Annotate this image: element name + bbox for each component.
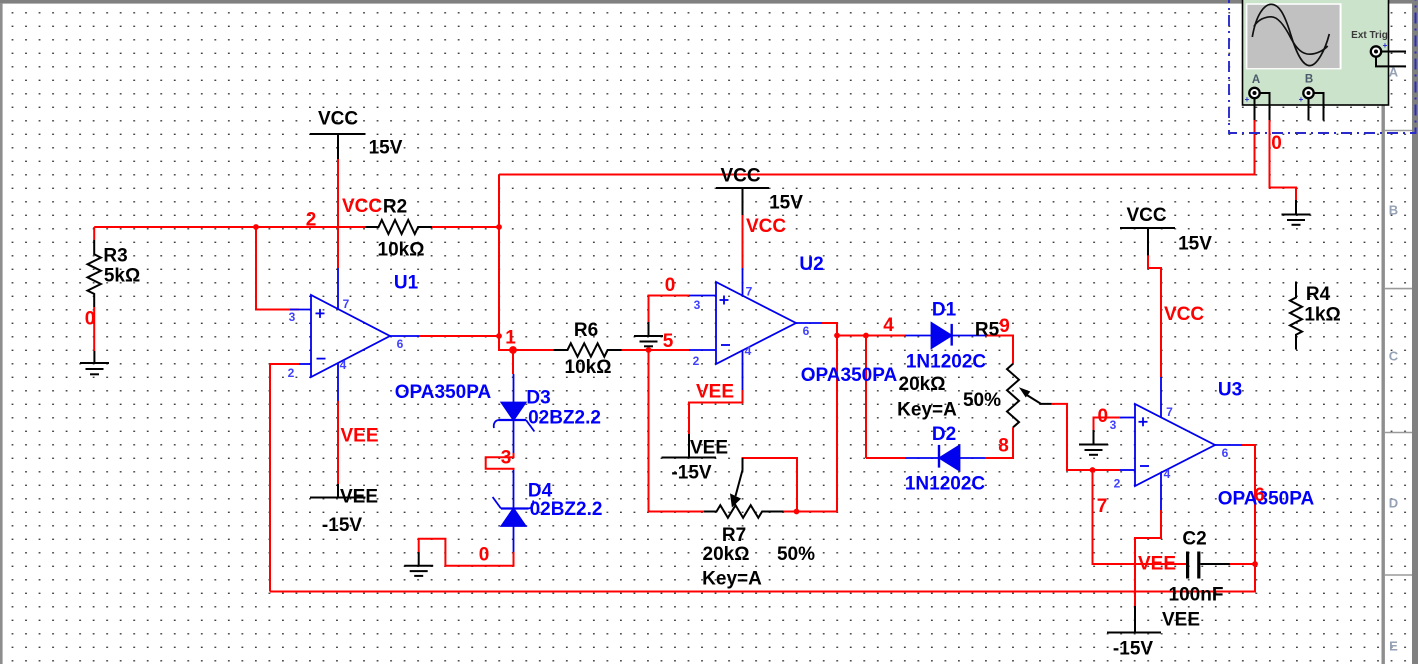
svg-text:10kΩ: 10kΩ (378, 240, 425, 261)
wire R7 wiper loop (743, 458, 798, 512)
svg-text:VEE: VEE (690, 438, 728, 459)
svg-text:7: 7 (1166, 405, 1173, 419)
svg-text:R6: R6 (574, 320, 598, 341)
wire R3 bottom to ground (93, 307, 95, 351)
wire bottom long net6 (270, 564, 1255, 592)
sheet border left strip (0, 4, 3, 664)
label R7 percent (777, 544, 815, 565)
wire node1 vertical x499 (499, 175, 554, 351)
selection box dashed (1229, 0, 1416, 133)
label -15V U3 (1113, 639, 1153, 660)
svg-text:VCC: VCC (1126, 205, 1166, 226)
VCC bar U3 (1120, 228, 1175, 255)
wire VCC U3 stem (1148, 255, 1161, 377)
label net 4 (883, 315, 894, 336)
label R5 key (897, 400, 957, 421)
label D2 part (905, 474, 986, 495)
junction dot C2 out (1252, 561, 1258, 567)
oscilloscope label Ext Trig (1351, 30, 1388, 41)
svg-text:50%: 50% (777, 544, 815, 565)
svg-text:0: 0 (85, 309, 96, 330)
svg-text:100nF: 100nF (1169, 585, 1224, 606)
label U2 part (801, 365, 898, 386)
svg-text:1N1202C: 1N1202C (905, 474, 986, 495)
svg-text:VCC: VCC (1164, 304, 1204, 325)
potentiometer R7 body (704, 505, 784, 518)
label VCC U1 (318, 109, 358, 130)
label R5 (975, 320, 1000, 341)
label net 9 (999, 316, 1010, 337)
svg-text:C2: C2 (1182, 529, 1206, 550)
label R4 (1306, 284, 1331, 305)
resistor R4 (1290, 282, 1302, 350)
pin labels U2 (693, 285, 810, 369)
VCC bar U2 (716, 188, 769, 215)
svg-text:5: 5 (663, 331, 674, 352)
capacitor C2 (1188, 552, 1230, 579)
svg-text:15V: 15V (769, 193, 803, 214)
wire top long node1 to scope A (499, 120, 1255, 175)
svg-text:VCC: VCC (342, 196, 382, 217)
svg-text:VEE: VEE (696, 382, 734, 403)
label net 5 (663, 331, 674, 352)
wire D1 right to R5 top (986, 336, 1013, 364)
op-amp U3 (1120, 377, 1242, 510)
ground net0 U2 (634, 322, 663, 346)
label VCC red U1 (342, 196, 382, 217)
wire VCC U1 stem (337, 159, 339, 268)
oscilloscope Ext Trig stubs (1376, 52, 1406, 67)
ground scope net0 (1282, 200, 1311, 225)
label R6 (574, 320, 598, 341)
svg-text:20kΩ: 20kΩ (899, 374, 946, 395)
svg-text:U1: U1 (394, 273, 419, 294)
svg-text:2: 2 (1114, 477, 1121, 491)
svg-text:0: 0 (665, 275, 676, 296)
label U1 (394, 273, 419, 294)
label 15V U3 (1178, 234, 1212, 255)
svg-text:-15V: -15V (671, 463, 711, 484)
svg-text:10kΩ: 10kΩ (565, 357, 612, 378)
label U3 (1218, 380, 1242, 401)
svg-text:6: 6 (1222, 446, 1229, 460)
svg-text:VEE: VEE (340, 487, 378, 508)
junction dot net5 ground (646, 347, 652, 353)
zener diode D3 (494, 374, 535, 453)
label R5 percent (963, 390, 1001, 411)
svg-text:7: 7 (746, 285, 753, 299)
wire D3 top stub (512, 350, 514, 374)
junction dot net2-x499 (496, 224, 502, 230)
label net 2 (306, 210, 317, 231)
label VEE red U3 (1138, 554, 1176, 575)
label net 0 U2 (665, 275, 676, 296)
label net 3 (501, 448, 512, 469)
wire U1 output to node1 (419, 335, 499, 337)
label net 0 R3 (85, 309, 96, 330)
label U2 (799, 254, 823, 275)
svg-text:4: 4 (883, 315, 894, 336)
svg-text:2: 2 (288, 366, 295, 380)
svg-text:6: 6 (803, 324, 810, 338)
ground R3 (80, 351, 109, 374)
wire net2 down to U1 pin3 (256, 227, 299, 310)
svg-text:2: 2 (306, 210, 317, 231)
label U1 part (395, 382, 492, 403)
VEE bar U1 (310, 484, 366, 498)
label VCC red U2 (746, 216, 786, 237)
wire net0 U3 plus to ground (1094, 418, 1121, 431)
svg-text:Key=A: Key=A (702, 569, 762, 590)
label VEE red U2 (696, 382, 734, 403)
svg-text:Ext Trig: Ext Trig (1351, 30, 1388, 41)
label R7 value (703, 544, 750, 565)
wire VCC U2 stem (742, 215, 744, 268)
label D2 (932, 424, 956, 445)
svg-text:0: 0 (1098, 406, 1109, 427)
svg-text:20kΩ: 20kΩ (703, 544, 750, 565)
label R2 (383, 197, 407, 218)
VEE bar U3 (1107, 606, 1161, 633)
svg-text:6: 6 (1254, 485, 1265, 506)
label R4 value (1304, 305, 1340, 326)
label VEE U2 (690, 438, 728, 459)
svg-text:6: 6 (397, 337, 404, 351)
wire net2 R2 right to x499 (432, 226, 499, 228)
svg-text:R3: R3 (103, 246, 127, 267)
svg-text:3: 3 (289, 310, 296, 324)
svg-text:1: 1 (505, 328, 516, 349)
oscilloscope terminal B (1299, 88, 1314, 104)
sheet border right strip (1382, 0, 1418, 664)
resistor R3 (87, 240, 100, 307)
label net 0 U3 (1098, 406, 1109, 427)
svg-text:4: 4 (1164, 467, 1171, 481)
junction dot net4 b (863, 333, 869, 339)
junction dot net4 a (834, 333, 840, 339)
svg-text:3: 3 (501, 448, 512, 469)
wire U2 pin4 to VEE (689, 390, 743, 434)
VEE bar U2 (662, 434, 717, 458)
svg-text:7: 7 (343, 297, 350, 311)
label -15V U2 (671, 463, 711, 484)
svg-text:OPA350PA: OPA350PA (395, 382, 492, 403)
svg-text:R2: R2 (383, 197, 407, 218)
svg-text:1N1202C: 1N1202C (906, 352, 987, 373)
label R7 key (702, 569, 762, 590)
svg-text:B: B (1305, 74, 1313, 86)
svg-text:0: 0 (479, 545, 490, 566)
svg-text:7: 7 (1097, 496, 1108, 517)
wire R6 right to U2 minus (622, 349, 689, 351)
potentiometer R7 wiper arrow (731, 458, 743, 507)
junction dot node1 (496, 333, 502, 339)
svg-text:-15V: -15V (322, 515, 362, 536)
oscilloscope terminal A (1245, 88, 1260, 104)
svg-text:5kΩ: 5kΩ (104, 266, 140, 287)
svg-text:D2: D2 (932, 424, 956, 445)
wire C2 right lead red (1230, 563, 1255, 565)
oscilloscope label A (1252, 74, 1260, 86)
svg-text:4: 4 (745, 344, 752, 358)
svg-text:R5: R5 (975, 320, 1000, 341)
label R3 (103, 246, 127, 267)
sheet border top bar (0, 0, 1418, 4)
label U3 part (1218, 489, 1315, 510)
svg-text:15V: 15V (1178, 234, 1212, 255)
svg-text:A: A (1252, 74, 1260, 86)
svg-text:-15V: -15V (1113, 639, 1153, 660)
svg-text:VCC: VCC (746, 216, 786, 237)
wire D4 bottom to ground jog (419, 539, 514, 566)
wire R5 bottom to D2 right (985, 427, 1013, 458)
wire D2 left (866, 457, 905, 459)
svg-text:0: 0 (1271, 133, 1282, 154)
svg-text:Key=A: Key=A (897, 400, 957, 421)
junction dot U3 minus (1090, 467, 1096, 473)
svg-text:VEE: VEE (340, 426, 378, 447)
label D3 part (528, 408, 601, 429)
potentiometer R5 wiper arrow (1020, 388, 1051, 404)
svg-text:B: B (1389, 203, 1398, 218)
svg-text:C: C (1389, 349, 1399, 364)
wire R5 wiper to U3 minus (1052, 404, 1120, 470)
ground D4 net0 (404, 552, 433, 576)
label R2 value (378, 240, 425, 261)
label R3 value (104, 266, 140, 287)
VCC bar U1 (310, 134, 366, 159)
wire R3 top lead down (93, 227, 95, 240)
wire net0 U2 plus to ground (649, 296, 690, 323)
label C2 value (1169, 585, 1224, 606)
label VCC U3 (1126, 205, 1166, 226)
svg-text:E: E (1389, 639, 1398, 654)
junction dot R7 (794, 509, 800, 515)
label R7 (722, 525, 746, 546)
label net 0 D4 (479, 545, 490, 566)
wire scope A minus to ground (1270, 120, 1297, 200)
junction dot net2-R3 (253, 224, 259, 230)
svg-text:VEE: VEE (1138, 554, 1176, 575)
svg-text:R4: R4 (1306, 284, 1331, 305)
wire U1 pin4 to VEE (337, 401, 339, 484)
wire U3 pin4 to VEE (1135, 510, 1161, 606)
svg-text:15V: 15V (369, 138, 403, 159)
label VEE red U1 (340, 426, 378, 447)
diode D1 (905, 323, 986, 348)
pin labels U1 (288, 297, 404, 380)
svg-text:02BZ2.2: 02BZ2.2 (528, 408, 601, 429)
svg-text:D1: D1 (932, 300, 957, 321)
diode D2 (905, 445, 985, 471)
label 15V U2 (769, 193, 803, 214)
svg-text:VEE: VEE (1162, 610, 1200, 631)
svg-text:OPA350PA: OPA350PA (1218, 489, 1315, 510)
label R6 value (565, 357, 612, 378)
svg-text:8: 8 (998, 436, 1009, 457)
resistor R2 (366, 220, 433, 234)
wire U3 output down (1242, 445, 1255, 564)
svg-text:02BZ2.2: 02BZ2.2 (530, 499, 603, 520)
resistor R6 (554, 343, 622, 356)
label net 8 (998, 436, 1009, 457)
label -15V U1 (322, 515, 362, 536)
label 15V U1 (369, 138, 403, 159)
oscilloscope Ext Trig terminal (1371, 41, 1388, 57)
junction dot D3 tap (510, 347, 516, 353)
svg-text:9: 9 (999, 316, 1010, 337)
svg-text:U3: U3 (1218, 380, 1242, 401)
op-amp U2 (689, 268, 822, 390)
svg-text:D3: D3 (526, 388, 550, 409)
label VCC red U3 (1164, 304, 1204, 325)
wire net4 row (837, 335, 906, 337)
wire net2 horizontal R3 to R2 (94, 226, 365, 228)
label D1 (932, 300, 957, 321)
svg-text:U2: U2 (799, 254, 823, 275)
svg-text:+: + (1383, 41, 1388, 50)
oscilloscope A pin stubs (1255, 93, 1270, 120)
oscilloscope B pin stubs (1309, 93, 1324, 121)
svg-text:3: 3 (694, 298, 701, 312)
svg-text:2: 2 (693, 354, 700, 368)
svg-text:4: 4 (340, 358, 347, 372)
wire net3 jog D3 D4 (486, 453, 514, 470)
label net 7 (1097, 496, 1108, 517)
svg-text:+: + (1245, 95, 1250, 104)
label VCC U2 (720, 166, 760, 187)
svg-text:D: D (1389, 496, 1398, 511)
svg-text:OPA350PA: OPA350PA (801, 365, 898, 386)
label VEE U3 (1162, 610, 1200, 631)
label net 6 (1254, 485, 1265, 506)
potentiometer R5 body (1007, 364, 1019, 428)
svg-text:VCC: VCC (720, 166, 760, 187)
svg-text:50%: 50% (963, 390, 1001, 411)
wire R7 row right (784, 511, 838, 513)
wire U1 minus input (270, 364, 299, 592)
oscilloscope XSC1 body (1243, 0, 1389, 105)
label net 0 scope (1271, 133, 1282, 154)
label D4 part (530, 499, 603, 520)
label R5 value (899, 374, 946, 395)
wire U2 output (822, 323, 837, 512)
pin labels U3 (1110, 405, 1229, 491)
label net 1 (505, 328, 516, 349)
ground U3 net0 (1079, 430, 1108, 455)
svg-text:+: + (1299, 95, 1304, 104)
label VEE U1 (340, 487, 378, 508)
svg-text:3: 3 (1110, 418, 1117, 432)
zener diode D4 (493, 470, 534, 552)
oscilloscope label B (1305, 74, 1313, 86)
wire net7 U3 minus down to C2 (1093, 470, 1187, 564)
label D1 part (906, 352, 987, 373)
label C2 (1182, 529, 1206, 550)
wire net4 down to D2 (865, 336, 867, 459)
op-amp U1 (290, 268, 419, 401)
label D4 (528, 481, 553, 502)
oscilloscope screen sine waves (1252, 4, 1329, 65)
label D3 (526, 388, 550, 409)
wire net5 down to R7 (649, 350, 705, 512)
svg-text:VCC: VCC (318, 109, 358, 130)
svg-text:1kΩ: 1kΩ (1304, 305, 1340, 326)
svg-text:R7: R7 (722, 525, 746, 546)
